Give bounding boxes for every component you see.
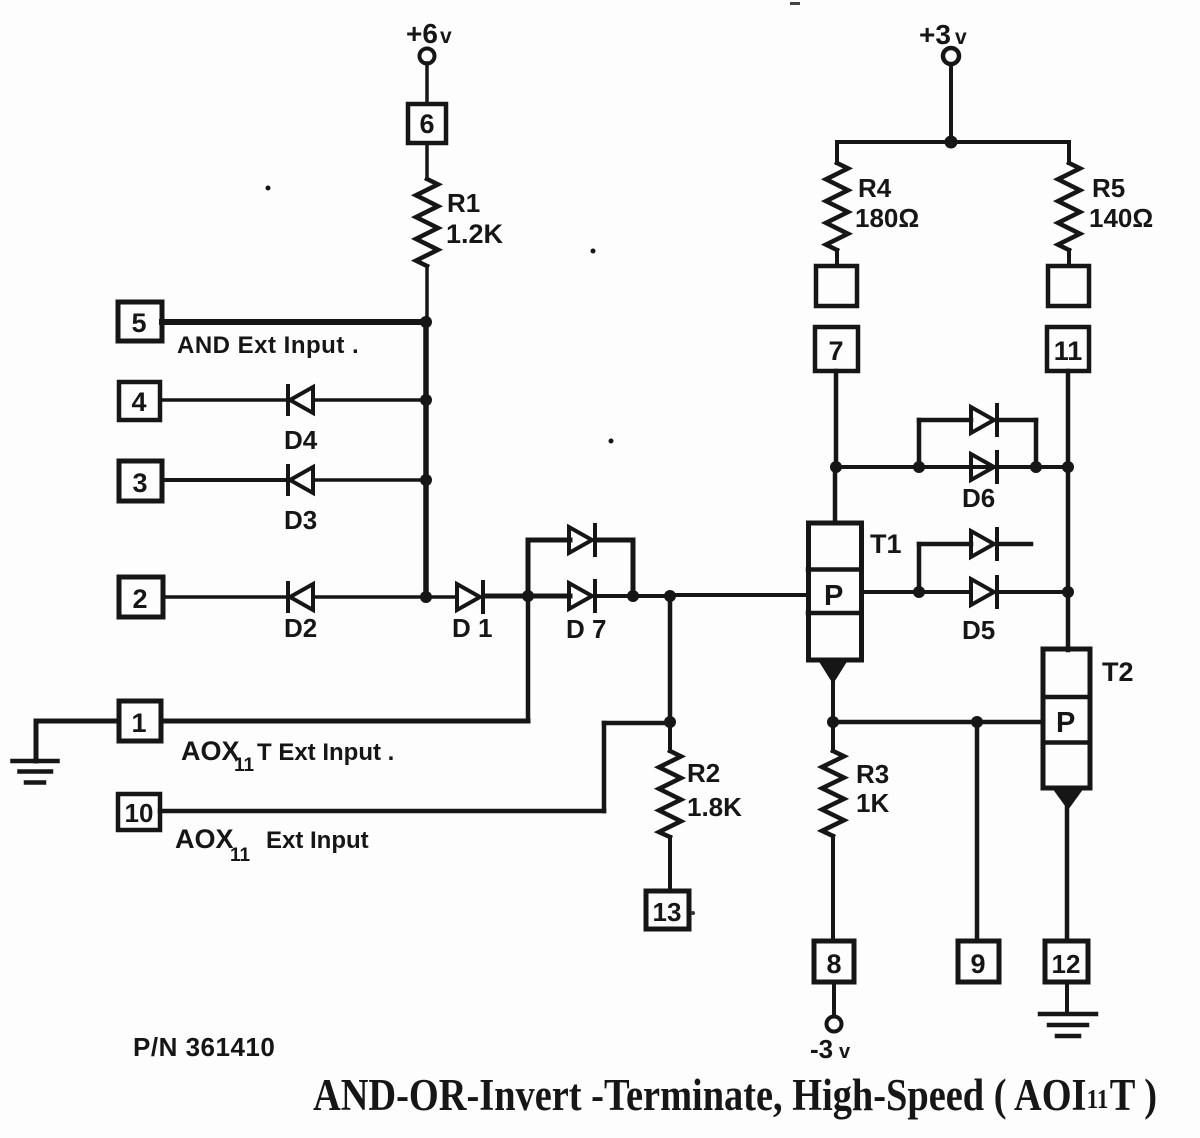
- pin box 5: [118, 302, 162, 341]
- resistor R5: [1058, 163, 1080, 250]
- svg-text:12: 12: [1052, 949, 1081, 979]
- transistor T1 emitter arrow: [818, 660, 848, 684]
- svg-text:9: 9: [970, 949, 985, 979]
- wire T1 collector to D5: [919, 590, 971, 594]
- svg-text:1.8K: 1.8K: [687, 792, 742, 822]
- speck mid2: [609, 439, 614, 444]
- svg-text:R2: R2: [687, 758, 720, 788]
- svg-text:D5: D5: [962, 615, 995, 645]
- wire R1 to AND bus: [425, 266, 429, 322]
- transistor T1 divider upper: [808, 567, 861, 572]
- diode D7: [569, 581, 595, 611]
- wire R5 to pad: [1067, 250, 1071, 266]
- pin box 4: [119, 382, 160, 420]
- svg-text:R4: R4: [858, 173, 892, 203]
- svg-text:10: 10: [125, 798, 154, 828]
- node junction bus-D3: [420, 474, 432, 486]
- pin box 8: [814, 941, 854, 982]
- wire ground to pin 1: [36, 719, 119, 724]
- svg-text:T ): T ): [1110, 1071, 1157, 1120]
- wire pin 8 to -3v terminal: [832, 982, 836, 1016]
- terminal circle -3v: [827, 1017, 842, 1032]
- wire R4 to pad: [835, 250, 839, 266]
- wire D6 rail horizontal: [836, 465, 1068, 469]
- svg-text:AOX: AOX: [181, 736, 240, 766]
- pad box below R5: [1048, 266, 1089, 306]
- wire pin 12 to ground: [1065, 982, 1069, 1013]
- svg-text:P: P: [1056, 707, 1075, 739]
- svg-text:T2: T2: [1102, 657, 1134, 687]
- pin box 3: [119, 461, 162, 501]
- svg-text:4: 4: [131, 387, 146, 417]
- transistor T2 body: [1043, 649, 1090, 788]
- node junction AND bus top: [420, 316, 432, 328]
- transistor T1 divider lower: [808, 611, 861, 616]
- diode D5: [971, 577, 997, 607]
- wire rail to R4: [835, 142, 839, 163]
- svg-text:11: 11: [234, 755, 255, 776]
- svg-text:T Ext Input .: T Ext Input .: [257, 739, 394, 766]
- diode D7 upper bypass: [569, 525, 595, 555]
- pin box 1: [119, 701, 161, 741]
- node junction D7 bypass return: [627, 590, 639, 602]
- wire clamp diode riser: [917, 544, 922, 592]
- node junction B: [664, 590, 676, 602]
- wire +6v terminal to pin 6: [425, 63, 429, 104]
- svg-text:v: v: [839, 1041, 851, 1063]
- svg-text:6: 6: [419, 109, 434, 139]
- node junction D6 rail right: [1062, 461, 1074, 473]
- svg-text:P: P: [824, 580, 843, 612]
- speck top: [790, 2, 800, 5]
- svg-text:D3: D3: [284, 505, 317, 535]
- speck mid: [591, 249, 596, 254]
- pin box 2: [119, 577, 163, 617]
- transistor T2 divider lower: [1043, 740, 1090, 745]
- resistor R2: [659, 751, 681, 837]
- wire R3 to pin 8: [831, 836, 835, 941]
- svg-text:D6: D6: [962, 483, 995, 513]
- svg-text:AND Ext Input .: AND Ext Input .: [177, 332, 359, 359]
- wire riser to R2 node: [604, 721, 670, 726]
- diode D1: [457, 582, 483, 612]
- svg-text:13: 13: [653, 897, 682, 927]
- transistor T2 emitter arrow: [1052, 788, 1084, 810]
- wire pin 1 to riser: [161, 719, 528, 724]
- wire D6 rail to T1 collector top: [833, 467, 838, 523]
- transistor T1 body: [809, 523, 862, 660]
- speck near pin 13: [691, 911, 695, 915]
- wire D6 bypass top left: [919, 418, 971, 423]
- wire riser to node A: [526, 596, 531, 721]
- wire node B down to R2 node: [668, 596, 673, 722]
- wire D7 bypass top left: [528, 538, 570, 543]
- pin box 12: [1045, 941, 1088, 982]
- wire D7 bypass right riser: [631, 540, 636, 596]
- svg-text:D2: D2: [284, 613, 317, 643]
- diode D6: [971, 452, 997, 482]
- wire pin 10 riser: [602, 723, 607, 811]
- node junction D6 bypass right: [1030, 461, 1042, 473]
- wire emitter row horizontal: [833, 720, 1043, 725]
- svg-text:R1: R1: [447, 188, 480, 218]
- wire D3 to AND bus: [313, 478, 426, 482]
- resistor R4: [826, 163, 848, 250]
- pin box 6: [408, 104, 446, 143]
- svg-text:P/N 361410: P/N 361410: [133, 1032, 275, 1062]
- node junction bus bottom: [420, 591, 432, 603]
- wire D6 bypass left riser: [917, 420, 922, 467]
- node junction emitter row left: [827, 716, 839, 728]
- terminal circle +6v: [420, 49, 435, 64]
- speck upper left: [266, 186, 271, 191]
- svg-text:140Ω: 140Ω: [1089, 203, 1153, 233]
- node junction D6 bypass left: [913, 461, 925, 473]
- svg-text:v: v: [955, 26, 967, 49]
- wire D1 to node A: [485, 594, 528, 599]
- wire T2 emitter down: [1065, 804, 1070, 941]
- wire R2 node to resistor: [668, 722, 672, 751]
- wire bus to diode D1: [426, 595, 457, 599]
- wire node A to D7: [528, 594, 570, 599]
- node junction +3v rail: [945, 136, 958, 149]
- svg-text:1: 1: [131, 708, 146, 738]
- wire T1 collector right: [861, 590, 919, 594]
- svg-text:D 1: D 1: [452, 613, 492, 643]
- svg-text:1K: 1K: [856, 788, 889, 818]
- svg-text:AND-OR-Invert -Terminate, High: AND-OR-Invert -Terminate, High-Speed ( A…: [313, 1071, 1087, 1120]
- diode clamp (unlabeled): [971, 529, 997, 559]
- wire D6 bypass top right: [999, 418, 1036, 423]
- label AOX11T Ext Input: [181, 736, 394, 776]
- node junction pin 9 tap: [971, 716, 983, 728]
- pin box 11: [1047, 327, 1089, 371]
- wire R2 to pin 13: [668, 837, 672, 891]
- svg-text:2: 2: [132, 584, 147, 614]
- svg-text:Ext Input: Ext Input: [266, 827, 369, 854]
- wire ground riser: [34, 721, 39, 761]
- wire D5 to main riser: [999, 590, 1068, 594]
- svg-text:11: 11: [230, 845, 251, 866]
- wire clamp diode left: [919, 542, 971, 547]
- node junction T1 collector: [913, 586, 925, 598]
- svg-text:180Ω: 180Ω: [855, 203, 919, 233]
- svg-text:5: 5: [131, 308, 146, 338]
- ground symbol right: [1040, 1014, 1096, 1036]
- diode D2: [288, 583, 313, 611]
- svg-text:7: 7: [828, 336, 843, 366]
- terminal circle +3v: [943, 48, 959, 64]
- wire D2 to AND bus: [313, 595, 426, 599]
- diode D4: [288, 386, 313, 414]
- svg-text:11: 11: [1054, 336, 1083, 366]
- node junction D5 output: [1062, 586, 1074, 598]
- svg-text:8: 8: [826, 949, 841, 979]
- svg-text:T1: T1: [870, 529, 902, 559]
- svg-text:+3: +3: [919, 19, 951, 50]
- svg-text:3: 3: [132, 468, 147, 498]
- wire T1 emitter down: [831, 678, 835, 722]
- wire pin 7 to D6 rail: [834, 371, 839, 467]
- wire +3v down: [949, 64, 953, 142]
- node +3v supply label: [919, 19, 967, 50]
- node junction A (D7 branch): [522, 590, 534, 602]
- node junction bus-D4: [420, 394, 432, 406]
- wire D7 bypass top right: [597, 538, 633, 543]
- wire pin 2 to diode D2: [163, 595, 287, 599]
- ground symbol left: [13, 761, 58, 783]
- svg-text:R5: R5: [1092, 173, 1125, 203]
- wire +3v rail horizontal: [837, 140, 1069, 144]
- wire D6 bypass right riser: [1034, 420, 1039, 467]
- node -3v supply label: [810, 1034, 851, 1064]
- wire pin 3 to diode D3: [162, 478, 287, 482]
- label AOX11 Ext Input: [175, 824, 369, 866]
- pin box 13: [646, 891, 689, 929]
- node +6v supply label: [406, 18, 452, 49]
- diode D6 upper: [971, 405, 997, 435]
- wire rail to R5: [1067, 142, 1071, 163]
- svg-text:AOX: AOX: [175, 824, 234, 854]
- pin box 7: [815, 327, 858, 371]
- wire pin 10 horizontal: [160, 809, 604, 814]
- node junction R2 top: [664, 716, 676, 728]
- resistor R3: [822, 751, 844, 836]
- pad box below R4: [816, 266, 857, 306]
- svg-text:v: v: [440, 25, 452, 48]
- node junction D6 rail left: [830, 461, 842, 473]
- wire clamp diode stub: [999, 542, 1031, 547]
- wire pin 5 to AND bus: [162, 319, 426, 325]
- wire R3 top: [831, 722, 835, 751]
- title AND-OR-Invert-Terminate: [313, 1071, 1157, 1120]
- pin box 10: [118, 794, 160, 830]
- pin box 9: [958, 941, 999, 982]
- svg-text:+6: +6: [406, 18, 438, 49]
- wire pin 9 riser: [975, 722, 980, 941]
- wire pin 6 to R1: [425, 143, 429, 179]
- transistor T2 divider upper: [1043, 695, 1090, 700]
- wire D7 to node B: [597, 594, 670, 598]
- resistor R1: [416, 179, 438, 266]
- svg-text:1.2K: 1.2K: [446, 219, 504, 249]
- wire pin 11 down to T2: [1066, 371, 1071, 650]
- svg-text:R3: R3: [856, 759, 889, 789]
- wire D4 to AND bus: [313, 398, 426, 402]
- wire node B to T1 base: [670, 593, 808, 597]
- svg-text:-3: -3: [810, 1034, 833, 1064]
- wire pin 4 to diode D4: [160, 398, 287, 402]
- wire AND bus vertical: [423, 322, 429, 597]
- wire D7 bypass left riser: [526, 540, 531, 596]
- svg-text:D 7: D 7: [566, 614, 606, 644]
- svg-text:D4: D4: [284, 425, 318, 455]
- svg-text:11: 11: [1087, 1085, 1109, 1114]
- diode D3: [288, 466, 313, 494]
